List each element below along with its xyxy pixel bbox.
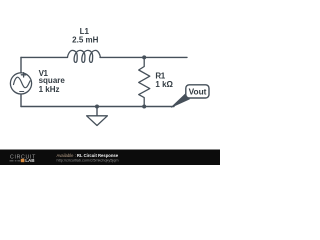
junction node at R1 bottom xyxy=(142,105,146,109)
footer logo dashes xyxy=(10,160,21,162)
footer logo orange mark xyxy=(21,159,25,162)
voltage source V1 circle xyxy=(10,73,31,94)
resistor R1 xyxy=(139,57,150,106)
Vout flag tail xyxy=(171,93,189,107)
ground symbol triangle xyxy=(87,116,108,126)
V1 sine glyph xyxy=(14,77,31,87)
Vout flag bubble xyxy=(186,85,209,98)
wire top-right horizontal (L1 to stub end) xyxy=(100,56,187,58)
wire V1 bottom vertical xyxy=(20,94,22,106)
svg-text:1 kHz: 1 kHz xyxy=(39,85,60,94)
svg-text:1 kΩ: 1 kΩ xyxy=(155,80,173,89)
junction node at R1 top xyxy=(142,55,146,59)
svg-text:Vout: Vout xyxy=(189,87,207,97)
footer bar xyxy=(0,150,220,166)
junction node at ground xyxy=(95,105,99,109)
V1 plus sign xyxy=(21,73,26,77)
ground stub wire xyxy=(96,107,98,116)
wire top-left horizontal (V1 top to L1) xyxy=(21,56,68,58)
inductor L1 xyxy=(67,50,100,62)
wire V1 top vertical xyxy=(20,57,22,72)
svg-text:http://circuitlab.com/c/5mkchq: http://circuitlab.com/c/5mkchqky5jqm xyxy=(57,159,119,163)
svg-text:LAB: LAB xyxy=(25,158,35,163)
svg-text:2.5 mH: 2.5 mH xyxy=(72,35,98,44)
svg-text:square: square xyxy=(39,76,66,85)
wire bottom horizontal xyxy=(21,106,174,108)
svg-text:Available : RL Circuit Respons: Available : RL Circuit Response xyxy=(57,153,119,158)
V1 minus sign xyxy=(20,91,24,93)
